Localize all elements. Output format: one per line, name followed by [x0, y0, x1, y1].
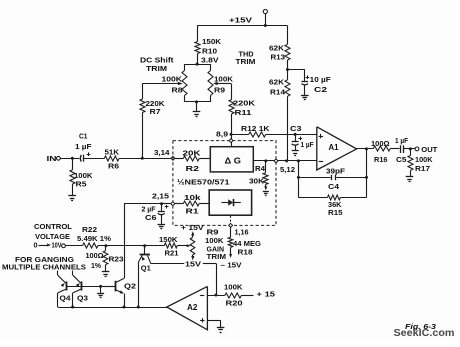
svg-text:15V: 15V [185, 260, 201, 269]
svg-text:220K: 220K [233, 98, 256, 107]
svg-text:R4: R4 [255, 164, 265, 173]
svg-text:C3: C3 [290, 124, 302, 133]
svg-text:R21: R21 [165, 249, 179, 258]
svg-text:TRIM: TRIM [236, 57, 256, 66]
svg-text:SeekIC.com: SeekIC.com [394, 328, 455, 339]
svg-text:TRIM: TRIM [146, 64, 167, 73]
svg-text:R2: R2 [186, 164, 200, 173]
svg-text:0: 0 [34, 241, 38, 250]
svg-text:R9: R9 [214, 86, 225, 95]
svg-text:10 µF: 10 µF [310, 75, 332, 84]
svg-text:51K: 51K [105, 147, 120, 156]
svg-text:R1: R1 [186, 207, 199, 216]
svg-text:R20: R20 [226, 299, 243, 308]
svg-text:R15: R15 [328, 208, 343, 217]
svg-text:44 MEG: 44 MEG [233, 239, 261, 248]
svg-text:C6: C6 [145, 213, 157, 222]
svg-text:2 µF: 2 µF [142, 204, 157, 213]
svg-text:MULTIPLE CHANNELS: MULTIPLE CHANNELS [2, 263, 86, 272]
svg-text:R7: R7 [150, 107, 161, 116]
svg-text:100K: 100K [415, 155, 433, 164]
svg-text:39pF: 39pF [326, 166, 346, 175]
svg-text:R16: R16 [374, 155, 388, 164]
svg-text:R11: R11 [235, 108, 252, 117]
svg-text:OUT: OUT [421, 145, 438, 154]
svg-text:1 µF: 1 µF [301, 140, 315, 149]
svg-text:100K: 100K [162, 74, 183, 83]
svg-text:100K: 100K [224, 283, 243, 292]
svg-text:A2: A2 [187, 302, 198, 312]
svg-text:R10: R10 [202, 47, 217, 56]
svg-text:R22: R22 [82, 225, 97, 234]
svg-text:150K: 150K [159, 235, 178, 244]
svg-text:+ 15V: + 15V [181, 223, 204, 232]
svg-text:62K: 62K [269, 77, 285, 86]
svg-text:R5: R5 [76, 180, 87, 189]
svg-text:3,14: 3,14 [154, 148, 170, 157]
svg-text:A1: A1 [329, 142, 339, 152]
svg-text:C5: C5 [396, 155, 407, 164]
svg-text:½NE570/571: ½NE570/571 [177, 177, 230, 186]
svg-text:Q4: Q4 [60, 294, 71, 303]
svg-text:100K: 100K [214, 74, 234, 83]
svg-text:C4: C4 [328, 182, 339, 191]
svg-text:R17: R17 [415, 164, 430, 173]
svg-text:Q1: Q1 [141, 264, 151, 273]
svg-text:8,9: 8,9 [216, 129, 228, 138]
svg-text:20K: 20K [183, 149, 202, 158]
svg-text:100Ω: 100Ω [371, 139, 390, 148]
svg-text:– 15V: – 15V [221, 261, 242, 270]
svg-text:C2: C2 [314, 85, 327, 94]
svg-text:R6: R6 [108, 162, 119, 171]
svg-text:1 µF: 1 µF [395, 136, 409, 145]
svg-text:Q3: Q3 [77, 294, 88, 303]
svg-text:R13: R13 [271, 53, 286, 62]
svg-text:150K: 150K [202, 37, 222, 46]
svg-text:10k: 10k [184, 193, 201, 202]
svg-text:1 µF: 1 µF [75, 142, 92, 151]
svg-text:C1: C1 [79, 132, 88, 141]
svg-text:1%: 1% [91, 261, 102, 270]
svg-text:+15V: +15V [229, 15, 252, 24]
svg-text:30K: 30K [249, 176, 265, 185]
svg-text:R12 1K: R12 1K [241, 124, 270, 133]
svg-text:2,15: 2,15 [152, 191, 169, 200]
svg-text:R18: R18 [238, 248, 253, 257]
svg-text:R8: R8 [172, 86, 183, 95]
svg-text:+ 15: + 15 [257, 290, 276, 299]
svg-text:3.8V: 3.8V [201, 56, 219, 65]
svg-text:5,12: 5,12 [280, 165, 295, 174]
svg-text:R14: R14 [270, 87, 285, 96]
svg-text:IN: IN [47, 154, 57, 163]
svg-text:CONTROL: CONTROL [34, 222, 73, 231]
svg-text:5.49K 1%: 5.49K 1% [77, 234, 112, 243]
svg-text:10V: 10V [52, 241, 62, 250]
svg-text:1,16: 1,16 [235, 227, 249, 236]
svg-text:Δ G: Δ G [225, 156, 242, 166]
svg-text:Q2: Q2 [124, 281, 136, 290]
svg-text:100K: 100K [205, 236, 224, 245]
svg-text:62K: 62K [269, 43, 285, 52]
svg-text:100Ω: 100Ω [86, 251, 104, 260]
svg-text:R23: R23 [109, 255, 124, 264]
